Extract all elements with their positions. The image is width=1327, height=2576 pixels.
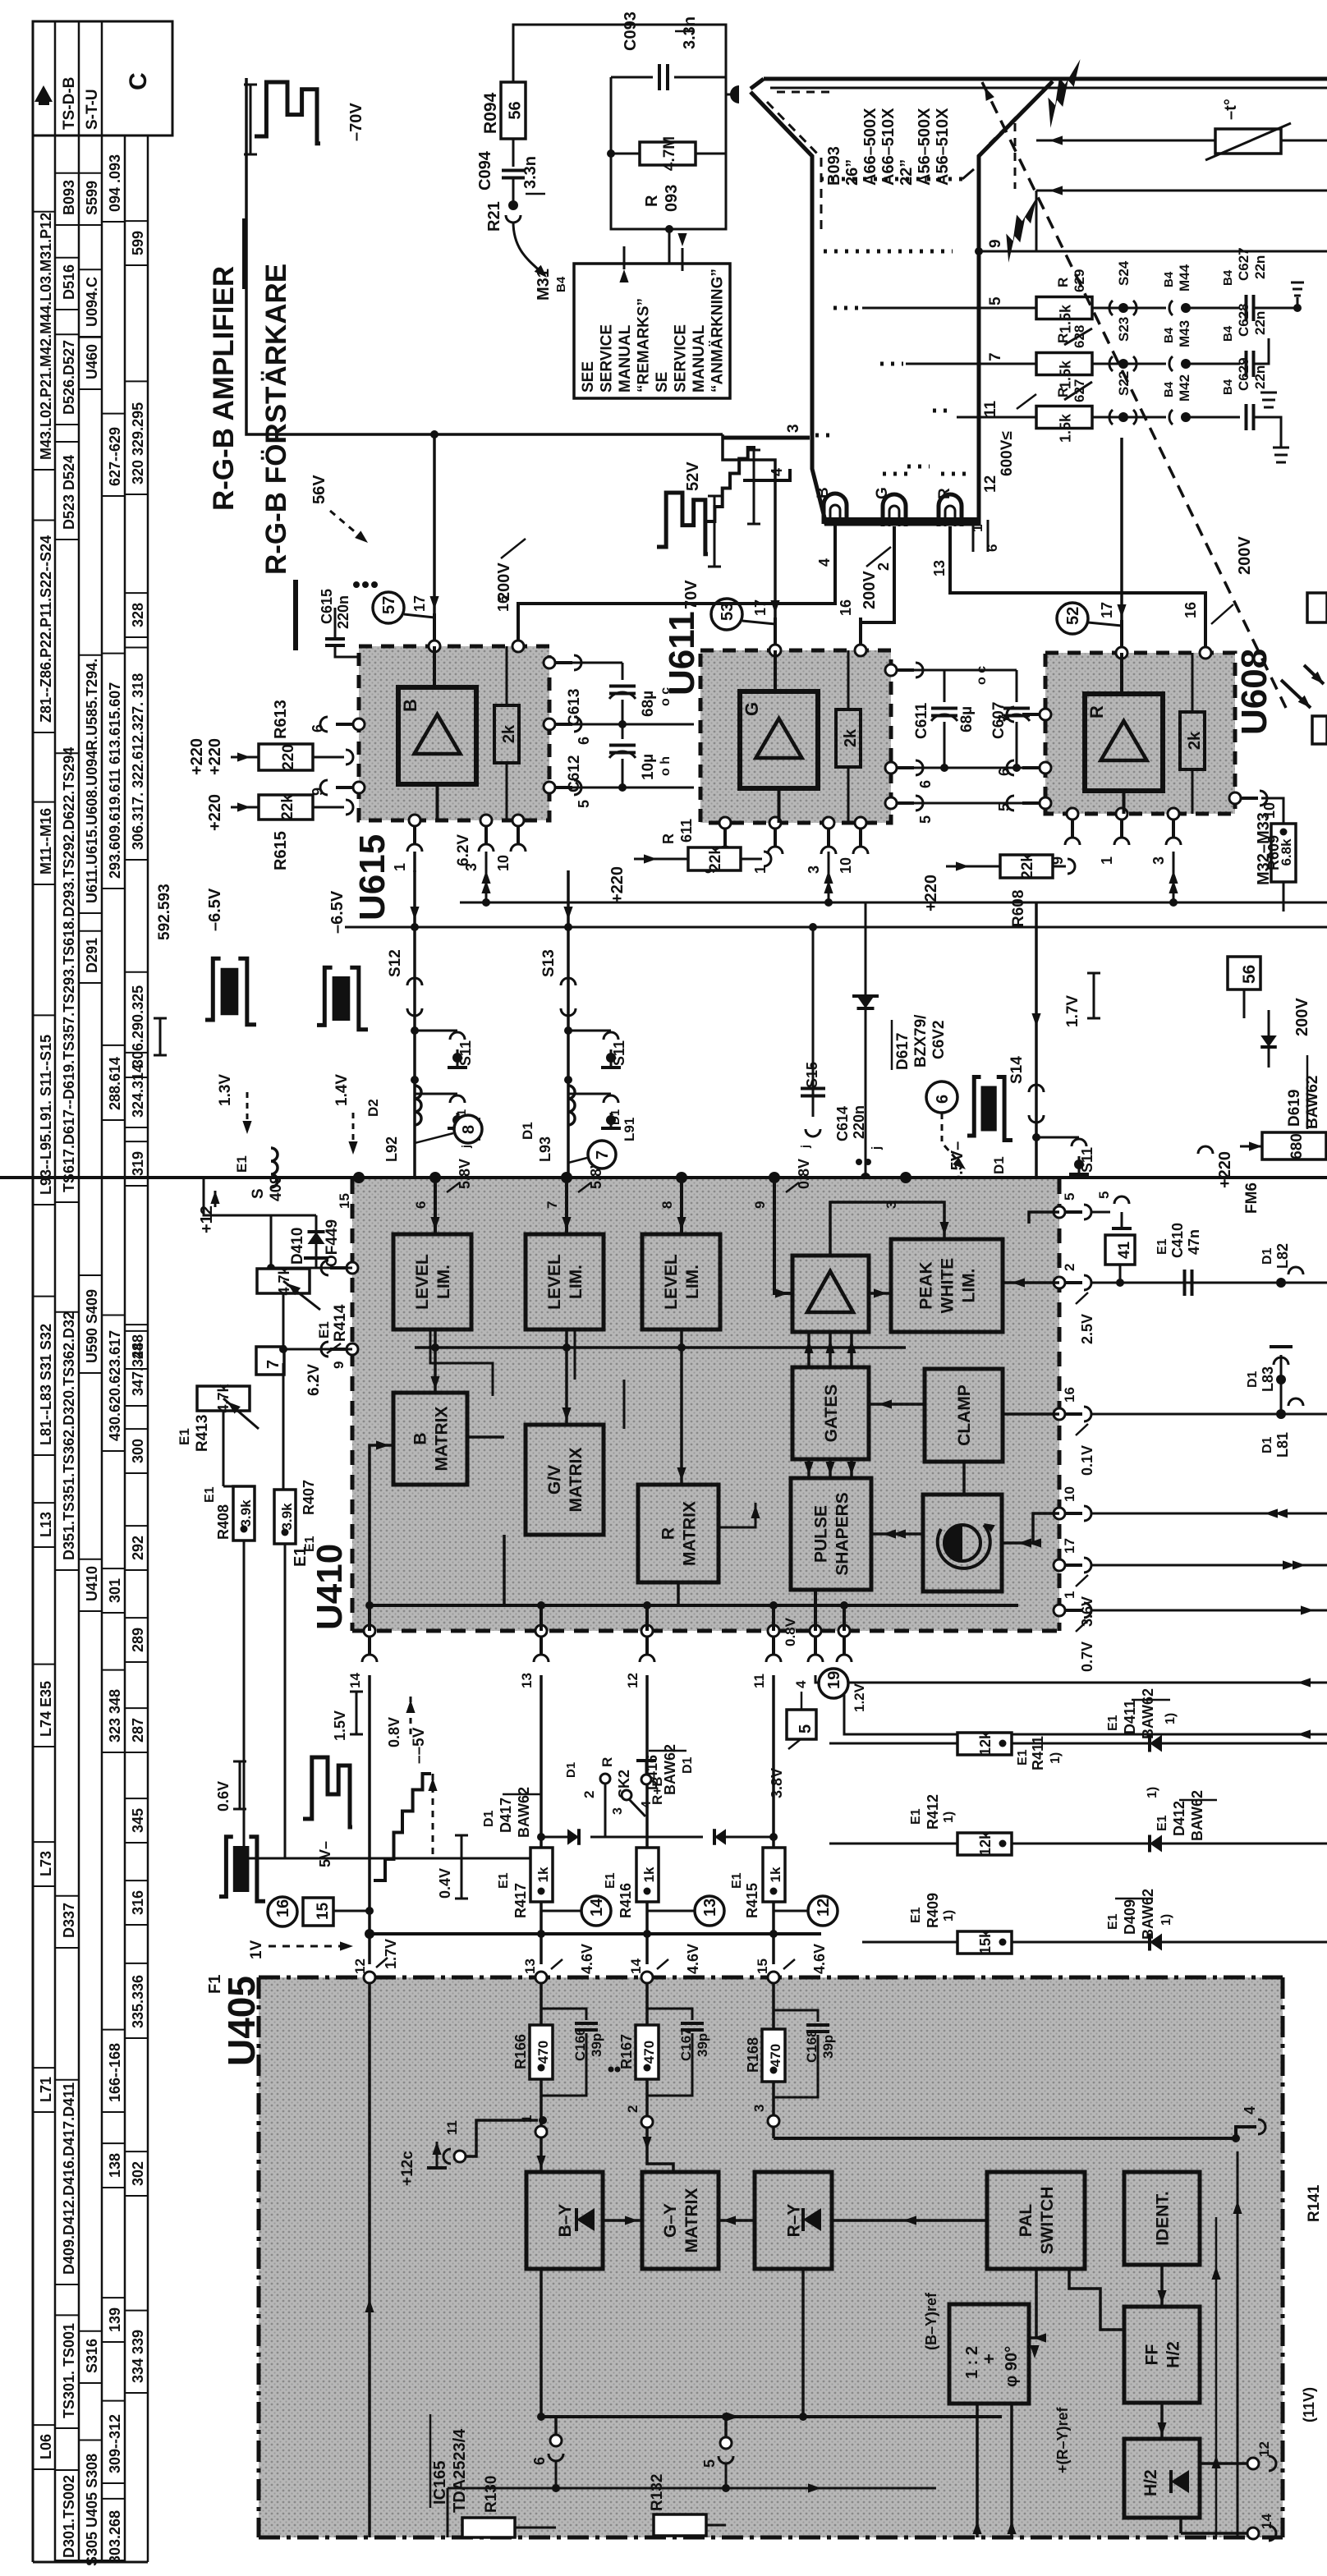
block GATES [792,1367,869,1459]
svg-text:SHAPERS: SHAPERS [833,1492,852,1576]
svg-text:Z81--Z86.P22.P11.S22--S24: Z81--Z86.P22.P11.S22--S24 [38,535,54,723]
svg-text:0.6V: 0.6V [215,1781,232,1811]
svg-text:M44: M44 [1177,264,1192,292]
svg-text:328: 328 [130,603,146,627]
svg-text:4.7k: 4.7k [215,1384,232,1413]
block G/V MATRIX [526,1425,604,1535]
svg-text:7: 7 [987,352,1004,361]
svg-text:CLAMP: CLAMP [955,1384,974,1446]
wire arrow to M31 [513,222,544,274]
wire R input pin17 [1120,438,1123,621]
svg-text:U094.C: U094.C [84,277,100,327]
diode D619 BAW62 [1268,1010,1270,1068]
svg-text:320 329.295: 320 329.295 [130,402,146,484]
service remarks box [574,264,730,398]
svg-text:303.268: 303.268 [107,2510,123,2564]
svg-text:6: 6 [934,1095,952,1104]
svg-text:6: 6 [917,780,934,788]
svg-text:1.7V: 1.7V [383,1939,399,1969]
svg-text:D1: D1 [520,1122,535,1140]
CRT electrode dots g2 rows [833,306,861,310]
svg-text:IDENT.: IDENT. [1154,2191,1173,2246]
svg-text:599: 599 [130,231,146,255]
svg-text:D410: D410 [289,1228,306,1265]
svg-text:4.6V: 4.6V [579,1944,595,1974]
ground C627 [1293,304,1302,312]
resistor R408 3.9k [233,1486,255,1541]
potentiometer R414 4.7k [257,1269,310,1293]
svg-text:0.1V: 0.1V [1079,1445,1095,1476]
block R MATRIX [638,1485,719,1582]
svg-text:E1: E1 [1106,1715,1120,1731]
svg-text:22n: 22n [1252,255,1268,279]
svg-text:S11: S11 [1079,1147,1095,1173]
label 200V ticks [501,539,526,558]
svg-text:56V: 56V [310,475,328,504]
block PAL SWITCH [987,2172,1085,2269]
wire G cathode to pin16 [861,575,894,645]
svg-text:5V–: 5V– [317,1841,333,1867]
svg-text:335.336: 335.336 [130,1975,146,2028]
svg-text:L73: L73 [38,1851,54,1876]
svg-text:D409.D412.D416.D417.D411: D409.D412.D416.D417.D411 [61,2082,77,2275]
U405 pin12 column [368,1983,371,2537]
connector M44 B4 [1169,301,1173,315]
U405 right vertical [1237,2151,1239,2537]
reference table frame [33,21,172,135]
svg-text:D409: D409 [1122,1899,1138,1935]
wire R cathode to pin16 [950,575,1205,647]
ground C628 [1260,393,1277,407]
svg-text:5.8V: 5.8V [457,1159,473,1189]
wire R409 row [862,1941,1327,1944]
svg-text:R168: R168 [745,2037,761,2073]
svg-text:C612: C612 [566,755,583,792]
wire pin5 row [1091,1211,1110,1214]
resistor R416 1k [636,1848,659,1902]
resistor R628 1.5k [1036,353,1092,375]
svg-text:R608: R608 [1010,890,1027,927]
CRT pin 3 feed [723,436,810,440]
svg-text:U608: U608 [1234,649,1274,735]
svg-text:4.6V: 4.6V [811,1944,828,1974]
svg-text:5: 5 [1096,1192,1112,1199]
svg-text:1.5k: 1.5k [1058,413,1074,443]
spark gap cluster R S14 L94 [1035,977,1038,1178]
wire ident to ff [1160,2265,1164,2307]
table cell dividers [33,469,55,471]
test point 16 [268,1897,297,1926]
svg-text:R094: R094 [481,92,500,134]
svg-text:L81--L83 S31 S32: L81--L83 S31 S32 [38,1324,54,1445]
svg-text:10: 10 [838,857,854,874]
CRT gun R [939,494,962,526]
svg-text:323 348: 323 348 [107,1689,123,1743]
svg-text:L13: L13 [38,1512,54,1537]
svg-text:4: 4 [793,1680,809,1688]
test point 19 [819,1669,848,1698]
svg-text:R615: R615 [272,831,290,870]
svg-text:1k: 1k [535,1867,551,1882]
svg-text:4.7M: 4.7M [661,136,678,171]
svg-text:R413: R413 [194,1415,211,1452]
svg-text:11: 11 [444,2120,460,2135]
svg-text:22k: 22k [707,846,724,872]
svg-text:2k: 2k [842,728,860,747]
block 1:2 phase [949,2304,1029,2404]
svg-text:R21: R21 [485,201,503,232]
svg-text:D526.D527: D526.D527 [61,340,77,415]
svg-text:+220: +220 [922,875,940,911]
svg-text:BAW62: BAW62 [1140,1889,1156,1940]
svg-text:1): 1) [1159,1914,1173,1926]
svg-text:BAW62: BAW62 [1189,1790,1205,1841]
wire pin17 row [1091,1564,1327,1567]
svg-text:R: R [659,1527,678,1540]
svg-text:1: 1 [392,863,408,871]
svg-text:R: R [660,833,677,844]
svg-text:611: 611 [678,819,695,843]
svg-text:L81: L81 [1274,1432,1291,1458]
svg-text:287: 287 [130,1718,146,1743]
svg-text:12k: 12k [977,1730,994,1756]
svg-text:430.620.623.617: 430.620.623.617 [107,1330,123,1441]
svg-text:WHITE: WHITE [939,1258,957,1314]
svg-text:R414: R414 [332,1304,349,1342]
svg-text:R416: R416 [618,1883,634,1918]
svg-text:409: 409 [268,1175,285,1201]
svg-text:E1: E1 [604,1872,618,1889]
svg-text:7: 7 [594,1150,612,1159]
svg-text:–70V: –70V [347,103,365,141]
svg-text:D1: D1 [681,1756,695,1774]
label box 7 [256,1347,284,1375]
svg-text:627: 627 [1072,379,1087,402]
svg-text:R613: R613 [272,700,290,739]
svg-text:D619: D619 [1286,1090,1303,1127]
svg-text:2: 2 [625,2105,641,2113]
svg-text:R: R [1086,705,1107,719]
block G-Y MATRIX [642,2172,719,2269]
svg-text:3: 3 [785,424,802,433]
svg-text:R609: R609 [1265,835,1282,870]
test point 57 [373,592,404,623]
svg-text:9: 9 [752,1201,768,1209]
svg-text:9: 9 [331,1361,347,1369]
svg-text:C166: C166 [572,2027,588,2061]
svg-text:BZX79/: BZX79/ [912,1014,930,1068]
block LEVEL LIM 1 [393,1234,471,1329]
svg-text:1: 1 [970,525,985,532]
svg-text:10µ: 10µ [640,754,657,780]
connector M42 B4 [1169,410,1173,425]
svg-text:L93: L93 [537,1136,553,1162]
U410 top pins [353,1172,365,1183]
wire service link [668,229,671,271]
svg-text:C410: C410 [1169,1223,1186,1258]
svg-text:292: 292 [130,1536,146,1560]
wire h2 outputs [1200,2462,1253,2465]
inductor L83 branch [1280,1355,1283,1414]
svg-text:M43.L02.P21.M42.M44.L03.M31.P1: M43.L02.P21.M42.M44.L03.M31.P12 [38,213,54,460]
svg-text:R: R [1055,388,1071,397]
resistor R690 680 [1262,1132,1326,1159]
svg-text:E1: E1 [316,1321,332,1339]
svg-text:3.8V: 3.8V [769,1768,785,1798]
svg-text:D1: D1 [1260,1247,1274,1265]
svg-text:E1: E1 [1155,1238,1169,1255]
svg-text:R167: R167 [618,2034,635,2069]
wire R094 to C094 [512,139,515,167]
svg-text:11: 11 [751,1674,767,1688]
svg-text:22k: 22k [1019,853,1036,879]
svg-text:PAL: PAL [1017,2204,1035,2238]
svg-text:16: 16 [838,599,854,616]
svg-text:1: 1 [1099,856,1115,865]
column 13 wire [540,1675,543,1848]
svg-text:D417: D417 [498,1798,514,1833]
svg-text:288: 288 [130,1334,146,1359]
svg-text:10: 10 [1261,802,1278,819]
svg-text:41: 41 [1116,1241,1133,1259]
svg-text:L06: L06 [38,2434,54,2459]
resistor R611 22k [688,847,741,870]
svg-text:R141: R141 [1306,2184,1323,2222]
svg-text:M11--M16: M11--M16 [38,808,54,875]
CRT electrode dots g3 [824,250,953,254]
U405 inner wires [540,2269,543,2417]
wire 1:2 outputs [976,2404,979,2537]
chain pin13 R166 C166 [540,1983,543,2025]
svg-text:MATRIX: MATRIX [433,1407,452,1472]
svg-text:BAW62: BAW62 [1140,1688,1156,1739]
block LEVEL LIM 3 [642,1234,720,1329]
U410 right pins [1054,1206,1065,1218]
svg-text:E1: E1 [1155,1815,1169,1831]
wire number circle 7 [588,1141,616,1169]
wire pin3 row [844,1675,1327,1734]
block amp triangle [792,1256,869,1332]
svg-text:4.6V: 4.6V [685,1944,701,1974]
svg-text:PEAK: PEAK [917,1261,936,1309]
svg-text:22”: 22” [898,159,916,186]
svg-text:S11: S11 [457,1040,474,1066]
svg-text:D1: D1 [1260,1436,1274,1453]
svg-text:B4: B4 [554,276,568,292]
svg-text:S11: S11 [611,1040,627,1066]
resistor R094 56 [501,82,526,139]
svg-text:2k: 2k [1186,731,1204,750]
svg-text:26”: 26” [843,159,861,186]
svg-text:B4: B4 [1221,269,1235,286]
spark gap S22 [1092,416,1166,419]
svg-text:E1: E1 [1106,1913,1120,1930]
svg-text:680: 680 [1288,1133,1306,1159]
svg-text:R-G-B AMPLIFIER: R-G-B AMPLIFIER [208,266,240,511]
CRT cathode pin B 4 [833,524,837,575]
svg-text:1.4V: 1.4V [333,1074,351,1106]
svg-text:PULSE: PULSE [812,1505,831,1563]
IC U405 block [259,1977,1283,2537]
svg-text:R417: R417 [512,1883,529,1918]
wire page split line [0,1176,1327,1179]
svg-text:7: 7 [544,1201,560,1209]
svg-text:E1: E1 [1016,1749,1030,1766]
CRT electrode dots g4 [820,177,962,181]
svg-text:C628: C628 [1236,303,1251,337]
svg-text:FM6: FM6 [1243,1182,1260,1214]
svg-text:293.609.619.611 613.615.607: 293.609.619.611 613.615.607 [107,682,123,879]
svg-text:B4: B4 [1221,325,1235,342]
svg-text:R: R [1055,333,1071,343]
zener D617 BZX79 C6V2 [865,902,867,1178]
CRT screen face [764,77,1327,81]
svg-text:R–Y: R–Y [785,2204,804,2238]
svg-text:C094: C094 [476,150,494,191]
diode D409 BAW62 [1150,1934,1162,1951]
svg-text:3: 3 [1150,856,1167,865]
svg-text:A66–500X: A66–500X [861,108,879,186]
svg-text:o h: o h [659,756,673,776]
CRT pin 6 [987,520,990,552]
CRT funnel inner dashes [767,102,821,158]
svg-text:E1: E1 [234,1155,250,1173]
svg-text:470: 470 [535,2041,551,2064]
svg-text:H/2: H/2 [1164,2341,1183,2368]
junction +220 Y [1198,1146,1213,1154]
svg-text:R409: R409 [925,1893,941,1928]
EHT dashed diagonal [982,82,1286,708]
svg-text:0.8V: 0.8V [386,1717,402,1747]
svg-text:U590 S409: U590 S409 [84,1289,100,1363]
block PULSE SHAPERS [791,1478,871,1590]
svg-text:C168: C168 [804,2029,820,2063]
svg-text:G: G [874,487,891,499]
svg-text:MATRIX: MATRIX [681,1501,700,1566]
svg-text:E1: E1 [497,1872,511,1889]
svg-text:LEVEL: LEVEL [545,1254,564,1310]
wire R411 row [829,1743,1327,1745]
svg-text:166--168: 166--168 [107,2043,123,2102]
svg-text:39p: 39p [820,2035,836,2059]
capacitor C614 220n [812,927,815,1117]
svg-text:U410: U410 [310,1544,350,1630]
svg-text:B093: B093 [61,180,77,215]
svg-text:E1: E1 [203,1486,217,1503]
svg-text:13: 13 [701,1899,719,1917]
waveform 5V pulses left [219,1837,233,1897]
svg-text:G: G [742,702,762,716]
svg-text:+220: +220 [206,794,224,831]
svg-text:R: R [643,195,661,207]
svg-text:G–Y: G–Y [661,2203,680,2238]
svg-text:15: 15 [755,1958,770,1974]
CRT grid row 5 wire [862,307,1036,310]
block IDENT [1124,2172,1200,2265]
CRT cathode pin G 2 [893,526,896,575]
svg-text:“ANMÄRKNING”: “ANMÄRKNING” [709,269,727,393]
svg-text:1k: 1k [641,1867,657,1882]
svg-text:4: 4 [769,468,785,476]
svg-text:U405: U405 [220,1976,263,2066]
resistor R608 22k [1000,855,1053,878]
svg-text:L74 E35: L74 E35 [38,1681,54,1737]
svg-text:324.314: 324.314 [130,1064,146,1118]
resistor R615 22k [259,795,313,820]
svg-text:E1: E1 [730,1872,744,1889]
connector M43 B4 [1169,356,1173,371]
svg-text:309--312: 309--312 [107,2414,123,2473]
wire pin1 row [1091,1609,1327,1612]
wire R412 row [829,1843,1327,1845]
U410 inner wires [434,1179,437,1234]
svg-text:220n: 220n [851,1105,867,1139]
chain pin15 R168 C168 [772,1983,775,2029]
svg-text:+12c: +12c [399,2151,416,2186]
capacitor C612 10u [622,724,624,739]
spark gap S23 [1092,363,1166,365]
svg-text:600V≤: 600V≤ [999,431,1016,476]
waveform 5V pulses right [303,1757,352,1827]
block FF H/2 [1124,2307,1200,2403]
svg-text:“REMARKS”: “REMARKS” [636,298,653,393]
wire pin2 row C410 L82 [1091,1282,1327,1284]
svg-text:306.317. 322.612.327. 318: 306.317. 322.612.327. 318 [130,673,146,850]
svg-text:+220: +220 [206,738,224,775]
CRT grid row 11 wire [957,416,1036,419]
block LEVEL LIM 2 [526,1234,604,1329]
svg-text:S12: S12 [387,949,404,977]
svg-text:3.9k: 3.9k [279,1503,295,1531]
svg-text:SERVICE: SERVICE [599,324,616,393]
svg-text:22n: 22n [1252,311,1268,335]
svg-text:3.3n: 3.3n [521,156,540,189]
wire G drive [723,434,775,618]
svg-text:C627: C627 [1236,247,1251,281]
svg-text:306.290.325: 306.290.325 [130,985,146,1068]
svg-text:1): 1) [942,1910,956,1922]
svg-text:D351.TS351.TS362.D320.TS362.D3: D351.TS351.TS362.D320.TS362.D32 [61,1311,77,1560]
svg-text:B: B [400,699,420,712]
CRT heater bus [826,517,979,522]
inductor S409 [204,1178,271,1215]
svg-text:7: 7 [264,1360,282,1369]
svg-text:MANUAL: MANUAL [691,324,708,393]
IC U410 block [352,1179,1059,1631]
wire bus 2351 [370,1932,821,1935]
block rotator [923,1495,1002,1591]
svg-text:12: 12 [625,1673,641,1688]
capacitor C628 22n [1245,351,1248,377]
svg-text:C6V2: C6V2 [930,1020,948,1059]
block PEAK WHITE LIM [891,1239,1003,1332]
svg-text:B093: B093 [825,146,843,186]
wire pin4 row [815,1675,1327,1683]
svg-text:D301.TS002: D301.TS002 [61,2475,77,2558]
svg-text:U410: U410 [84,1566,100,1601]
svg-text:TS-D-B: TS-D-B [61,77,78,130]
wire B cathode to pin16 [518,575,835,641]
svg-text:+: + [979,2353,999,2364]
svg-text:15k: 15k [977,1929,994,1954]
svg-text:5: 5 [576,800,592,808]
resistor R629 1.5k [1036,297,1092,319]
table header arrow symbol [39,99,49,105]
wire bus under amps 1 [460,902,1327,904]
resistor R415 1k [763,1848,785,1902]
test point 12 [808,1896,838,1926]
svg-text:13: 13 [931,560,948,576]
